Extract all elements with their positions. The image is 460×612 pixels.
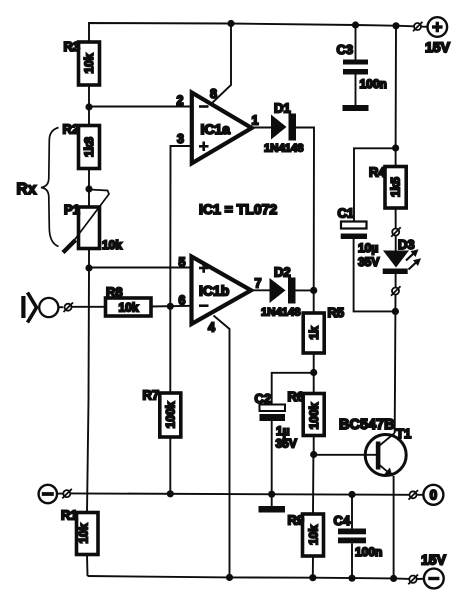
svg-text:35V: 35V: [276, 437, 297, 451]
wire node to C1: [354, 148, 396, 221]
resistor R1: [61, 508, 98, 577]
svg-text:1N4148: 1N4148: [261, 307, 301, 319]
wire R3 bottom to node A: [88, 85, 90, 107]
wire node C to IC1b pin 5: [89, 267, 192, 269]
svg-text:R2: R2: [63, 122, 80, 137]
op-amp IC1b: [179, 256, 262, 335]
svg-text:R5: R5: [328, 305, 345, 320]
capacitor C1 electrolytic: [338, 206, 396, 312]
wire 0-line: [70, 493, 409, 494]
node D1/D2/R5: [310, 287, 317, 294]
svg-text:D2: D2: [274, 265, 291, 280]
wire node A to IC1a pin 2: [89, 106, 192, 108]
wire IC1a pin 3 down to node: [170, 146, 191, 306]
svg-text:D1: D1: [274, 101, 291, 116]
node R5/R6/C2: [310, 369, 317, 376]
svg-text:IC1a: IC1a: [201, 121, 231, 137]
svg-text:T1: T1: [396, 426, 411, 441]
node R9 on -15V rail: [309, 574, 316, 581]
resistor R6: [288, 373, 325, 455]
op-amp IC1a: [177, 87, 259, 163]
svg-text:15V: 15V: [425, 39, 451, 55]
ground stub bar below 0-line: [259, 494, 286, 512]
diode D2 1N4148: [261, 265, 301, 319]
svg-text:15V: 15V: [421, 552, 447, 568]
svg-text:1k5: 1k5: [389, 177, 403, 197]
svg-text:4: 4: [208, 321, 215, 335]
svg-text:R3: R3: [64, 39, 81, 54]
wire D2 to node: [296, 289, 314, 291]
wire node to C2: [272, 373, 314, 405]
node R6/R9/base: [310, 451, 317, 458]
wire node down through 0-line to R9: [312, 455, 314, 515]
svg-text:IC1b: IC1b: [199, 283, 229, 299]
svg-text:C2: C2: [255, 391, 272, 406]
LED D3: [383, 236, 421, 288]
terminal +15V: [400, 17, 451, 55]
node pin8 to top rail: [227, 20, 234, 27]
node C1/collector rail: [392, 308, 399, 315]
node emitter on -15V rail: [390, 575, 397, 582]
node A (R3/R2/pin2): [85, 103, 92, 110]
svg-text:C3: C3: [337, 42, 354, 57]
svg-text:D3: D3: [398, 237, 415, 252]
capacitor C2 electrolytic: [255, 391, 297, 494]
terminal -15V: [408, 552, 446, 589]
connector circle above D3: [391, 227, 401, 237]
wire pin 8 to top rail: [212, 24, 231, 103]
svg-text:1k: 1k: [307, 326, 321, 340]
ground terminal left: [39, 485, 63, 503]
svg-text:R8: R8: [106, 285, 123, 300]
resistor R7: [143, 388, 181, 495]
svg-text:R6: R6: [288, 389, 305, 404]
resistor R9: [288, 513, 324, 578]
svg-text:R4: R4: [369, 165, 386, 180]
connector circle input: [64, 303, 74, 313]
svg-text:1k8: 1k8: [82, 137, 96, 157]
svg-text:100k: 100k: [307, 402, 321, 429]
node C4 on 0-line: [348, 491, 355, 498]
wire D1 to node D2 cathode: [296, 128, 314, 291]
wire node down to R7: [169, 306, 171, 393]
svg-text:100k: 100k: [164, 401, 178, 428]
brace Rx: [17, 128, 59, 247]
potentiometer P1: [63, 189, 122, 268]
wire base node to T1: [314, 454, 376, 456]
svg-text:10µ: 10µ: [358, 241, 378, 255]
wire IC1b output to D2: [251, 289, 270, 291]
node R8/pin3/pin6/R7: [167, 303, 174, 310]
svg-text:R7: R7: [143, 388, 160, 403]
svg-text:100n: 100n: [360, 77, 387, 91]
capacitor C4 100n: [334, 495, 383, 579]
svg-text:10k: 10k: [306, 525, 320, 545]
svg-text:R9: R9: [288, 513, 305, 528]
transistor T1 BC547B: [339, 417, 411, 477]
svg-text:0: 0: [430, 488, 438, 503]
wire input to R8: [72, 306, 106, 308]
node R4/C1 top: [392, 144, 399, 151]
node B (R2/P1/wiper): [85, 185, 92, 192]
wire top rail +15V: [89, 23, 400, 42]
resistor R5: [303, 290, 344, 372]
wire pin 4 down to -15V rail: [214, 316, 230, 578]
terminal 0 output: [409, 485, 444, 505]
svg-text:10k: 10k: [82, 53, 96, 73]
svg-text:C1: C1: [338, 206, 355, 221]
svg-text:IC1 = TL072: IC1 = TL072: [199, 201, 277, 217]
node pin4 wire on -15V rail: [226, 574, 233, 581]
svg-text:Rx: Rx: [17, 181, 37, 198]
node C3 top: [352, 21, 359, 28]
resistor R2: [63, 107, 100, 189]
svg-text:C4: C4: [334, 513, 351, 528]
capacitor C3 100n: [337, 25, 387, 111]
diode D1 1N4148: [264, 101, 304, 155]
svg-text:3: 3: [177, 132, 184, 146]
svg-text:BC547B: BC547B: [339, 417, 395, 433]
svg-text:10k: 10k: [102, 238, 122, 252]
wire rail node down to T1 collector: [394, 311, 397, 433]
svg-text:5: 5: [179, 256, 186, 270]
node C (P1 bottom / pin5): [85, 264, 92, 271]
resistor R4: [369, 148, 406, 229]
svg-text:1N4148: 1N4148: [264, 143, 304, 155]
svg-text:P1: P1: [64, 202, 80, 217]
wire T1 emitter down to -15V rail: [393, 476, 395, 578]
input probe symbol: [21, 293, 63, 323]
svg-text:10k: 10k: [118, 300, 138, 314]
svg-text:R1: R1: [61, 508, 78, 523]
node right rail top: [392, 22, 399, 29]
connector circle below D3: [391, 286, 401, 311]
wire left column down through 0-line to R1: [87, 268, 89, 513]
svg-text:100n: 100n: [355, 545, 382, 559]
wire right rail from +15V node down: [395, 26, 397, 148]
resistor R3: [64, 39, 100, 85]
resistor R8: [106, 285, 152, 317]
wire -15V bottom rail: [88, 576, 410, 579]
svg-text:6: 6: [179, 294, 186, 308]
svg-text:2: 2: [177, 94, 184, 108]
svg-text:35V: 35V: [358, 255, 379, 269]
svg-text:7: 7: [255, 277, 262, 291]
node C4 on -15V rail: [348, 575, 355, 582]
node R7 on 0-line: [167, 490, 174, 497]
connector circle ground: [62, 489, 72, 499]
wire R8 to pin 6: [151, 305, 192, 308]
svg-text:1: 1: [252, 114, 259, 128]
wire IC1a output to D1: [252, 127, 271, 129]
node C2 on 0-line: [268, 491, 275, 498]
svg-text:10k: 10k: [77, 523, 91, 543]
